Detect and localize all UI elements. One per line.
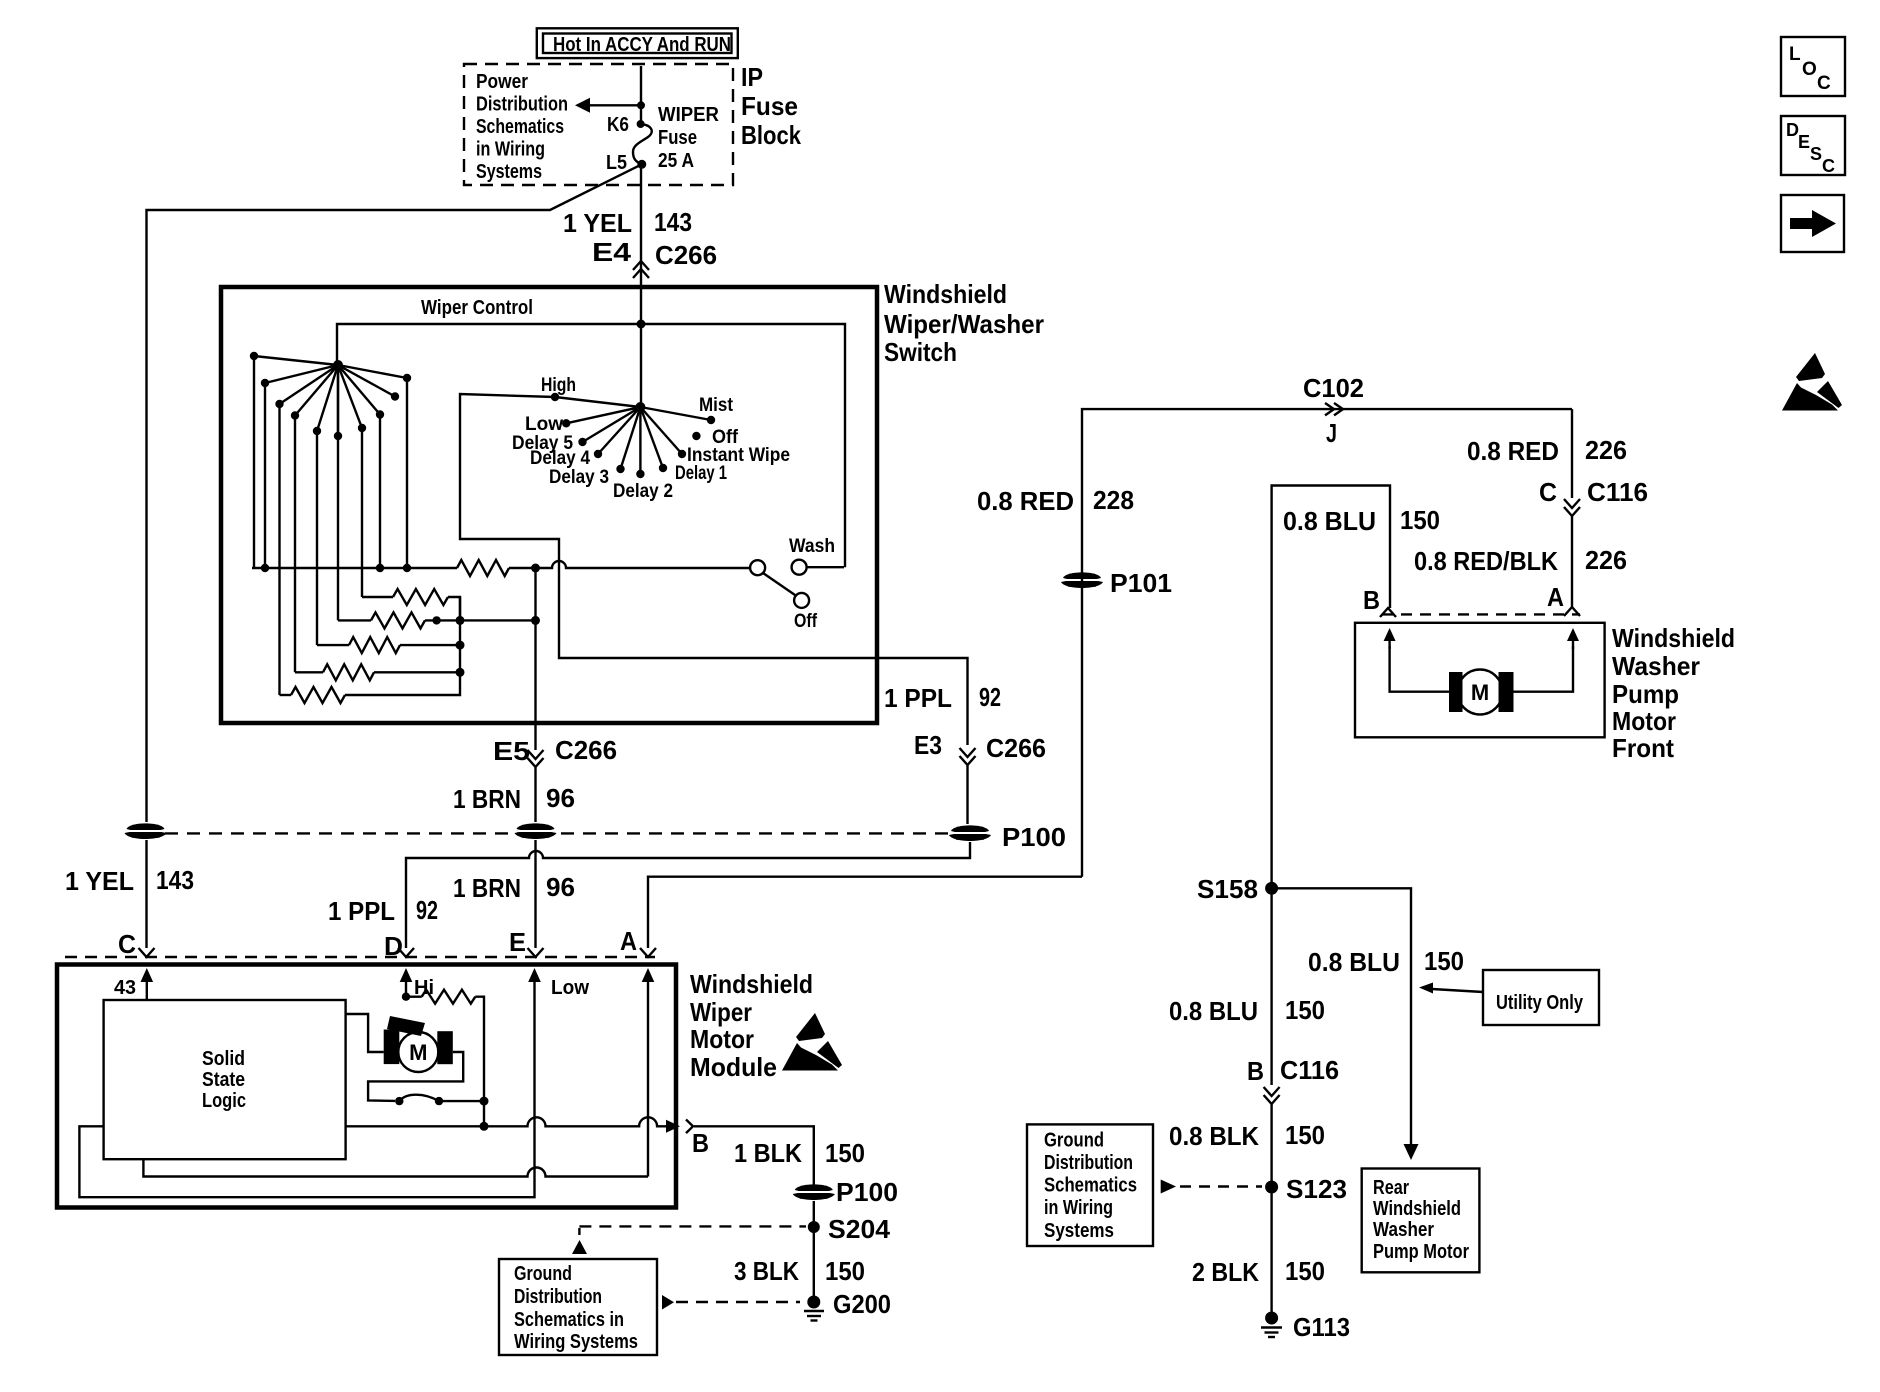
wire: 0.8 BLU 150 down from S158 [1270, 888, 1272, 1085]
svg-text:Motor: Motor [690, 1024, 754, 1054]
svg-text:Rear: Rear [1373, 1177, 1409, 1199]
svg-text:Logic: Logic [202, 1090, 246, 1112]
svg-text:150: 150 [1400, 505, 1440, 535]
svg-text:143: 143 [156, 865, 194, 895]
svg-text:C: C [1822, 156, 1835, 176]
svg-text:C: C [1817, 73, 1831, 94]
connector C116 pin B [1247, 1055, 1339, 1104]
svg-text:Low: Low [551, 977, 589, 999]
wire: RED 228 to module pin A [648, 877, 1082, 948]
svg-text:Solid: Solid [202, 1048, 245, 1070]
svg-text:Mist: Mist [699, 395, 734, 416]
label: 1 BLK 150 [734, 1138, 865, 1168]
junction S204 [808, 1201, 891, 1296]
motor M (washer pump) [1449, 670, 1514, 715]
svg-text:Wiper: Wiper [690, 997, 752, 1027]
wire: 0.8 BLK 150 [1270, 1103, 1272, 1187]
svg-text:Windshield: Windshield [1612, 623, 1735, 653]
box: Ground Distribution Schematics in Wiring Systems (right) [1027, 1124, 1153, 1246]
switch: left wafer rays [254, 356, 407, 436]
svg-text:Pump Motor: Pump Motor [1373, 1241, 1469, 1263]
svg-text:Windshield: Windshield [884, 279, 1007, 309]
icon: LOC [1781, 37, 1845, 96]
svg-text:Motor: Motor [1612, 706, 1676, 736]
svg-text:Washer: Washer [1612, 651, 1700, 681]
wire: E5 drop [534, 568, 536, 723]
svg-text:96: 96 [546, 783, 575, 813]
svg-text:E3: E3 [914, 730, 942, 760]
svg-text:B: B [1363, 585, 1380, 615]
svg-text:D: D [384, 931, 403, 961]
svg-text:C: C [1539, 477, 1557, 507]
wire: bus to wash contact (hop over High) [509, 561, 750, 568]
svg-text:25 A: 25 A [658, 150, 694, 172]
resistor R2 row [362, 589, 460, 620]
splice P100 (1 BRN) [515, 823, 557, 839]
wire: 0.8 RED 226 [1571, 409, 1573, 498]
wire: armature return [368, 1052, 463, 1101]
box: Rear Windshield Washer Pump Motor [1362, 1169, 1480, 1273]
label: IP Fuse Block [741, 62, 801, 150]
switch: left wafer hub [333, 360, 343, 370]
svg-text:150: 150 [825, 1256, 865, 1286]
switch: left wafer contacts [250, 352, 411, 440]
switch: rotary contacts + Off [551, 393, 715, 478]
label: 2 BLK 150 [1192, 1256, 1325, 1287]
switch: rotary hub [635, 402, 645, 412]
svg-text:E: E [509, 927, 526, 957]
svg-text:C266: C266 [986, 733, 1046, 763]
svg-text:P101: P101 [1110, 568, 1172, 598]
svg-text:C102: C102 [1303, 373, 1364, 403]
svg-text:226: 226 [1585, 435, 1627, 465]
svg-text:Wiring Systems: Wiring Systems [514, 1331, 638, 1353]
box: Utility Only [1419, 970, 1599, 1025]
wire: pin A vertical [647, 976, 649, 1177]
svg-text:0.8 RED/BLK: 0.8 RED/BLK [1414, 546, 1558, 576]
pin A (pump) [1547, 582, 1580, 616]
svg-text:Low: Low [525, 414, 563, 435]
ground G200 [804, 1289, 891, 1321]
svg-text:E5: E5 [493, 736, 530, 766]
label: 0.8 RED/BLK 226 [1414, 545, 1627, 576]
svg-text:Systems: Systems [1044, 1220, 1114, 1242]
svg-text:Hot In ACCY And RUN: Hot In ACCY And RUN [553, 34, 731, 56]
svg-text:Switch: Switch [884, 337, 957, 367]
label: 1 PPL 92 (lower) [328, 895, 438, 926]
splice P101 [1061, 568, 1172, 598]
switch: park switch [395, 1095, 488, 1106]
svg-text:C116: C116 [1587, 477, 1648, 507]
svg-text:Ground: Ground [1044, 1130, 1104, 1152]
svg-text:150: 150 [1285, 995, 1325, 1025]
connector: pump pins dashed [1382, 613, 1580, 615]
svg-text:0.8 BLU: 0.8 BLU [1283, 506, 1376, 536]
wire: 1 YEL 143 to pin C [139, 840, 155, 957]
svg-text:A: A [1547, 582, 1564, 612]
svg-text:High: High [541, 375, 576, 396]
junction S158 [1197, 874, 1278, 904]
svg-text:226: 226 [1585, 545, 1627, 575]
svg-text:1 PPL: 1 PPL [884, 683, 952, 713]
svg-text:0.8 RED: 0.8 RED [1467, 436, 1559, 466]
svg-text:Systems: Systems [476, 161, 542, 183]
wire: pin A input arrow [642, 968, 655, 982]
wire: 1 PPL 92 from P100 left to pin D (hop over BRN) [406, 842, 970, 948]
svg-text:228: 228 [1093, 485, 1134, 515]
svg-text:Distribution: Distribution [476, 94, 568, 116]
svg-text:1 YEL: 1 YEL [563, 208, 632, 238]
svg-text:1 BRN: 1 BRN [453, 873, 521, 903]
wire: arrow to Power Distribution Schematics [575, 98, 645, 113]
junction S123 [1265, 1174, 1347, 1204]
component: Solid State Logic [104, 1000, 346, 1159]
resistor R6 row [280, 597, 461, 703]
component: Windshield Washer Pump Motor Front [1355, 623, 1605, 738]
svg-text:S204: S204 [828, 1214, 891, 1244]
label: Power Distribution Schematics in Wiring Systems [476, 71, 568, 183]
svg-text:B: B [1247, 1056, 1264, 1086]
fuse: WIPER Fuse 25 A (K6/L5) [633, 120, 652, 169]
wire: SSL to motor [346, 1014, 384, 1052]
wire: E4 drop to switch [640, 164, 642, 287]
svg-text:Wash: Wash [789, 536, 835, 557]
connector E5 C266 [493, 723, 617, 822]
svg-text:Fuse: Fuse [658, 127, 697, 149]
svg-text:Washer: Washer [1373, 1219, 1434, 1241]
svg-text:IP: IP [741, 62, 763, 92]
svg-text:C266: C266 [555, 735, 617, 765]
svg-text:Wiper Control: Wiper Control [421, 297, 533, 319]
svg-text:Delay 4: Delay 4 [530, 448, 590, 469]
svg-text:Power: Power [476, 71, 528, 93]
svg-text:150: 150 [1285, 1256, 1325, 1286]
resistor R5 row [295, 664, 465, 680]
wire: 1 BLK 150 from pin B [692, 1126, 814, 1186]
svg-text:Distribution: Distribution [1044, 1152, 1133, 1174]
svg-text:G113: G113 [1293, 1312, 1350, 1342]
wire: 0.8 BLU 150 branch to rear pump [1272, 888, 1411, 1145]
label: 1 YEL 143 (fuse) [563, 207, 692, 238]
svg-text:J: J [1326, 418, 1337, 448]
svg-text:43: 43 [114, 977, 136, 999]
svg-text:Module: Module [690, 1052, 777, 1082]
svg-text:Ground: Ground [514, 1263, 572, 1285]
wire: pin D Hi arrow [400, 968, 434, 1001]
svg-text:92: 92 [416, 895, 438, 925]
svg-text:O: O [1802, 59, 1817, 80]
wire: delay resistor bus [252, 567, 457, 569]
splice P100 (1 YEL) [125, 823, 167, 839]
svg-text:C: C [118, 929, 136, 959]
connector: module pins dashed [65, 956, 655, 958]
svg-text:1 BLK: 1 BLK [734, 1138, 802, 1168]
svg-text:Instant Wipe: Instant Wipe [687, 445, 790, 466]
svg-text:S158: S158 [1197, 874, 1258, 904]
svg-text:0.8 BLU: 0.8 BLU [1308, 947, 1400, 977]
wire: 0.8 BLU 150 S158 to pump B [1272, 486, 1390, 889]
svg-text:Pump: Pump [1612, 679, 1679, 709]
svg-text:Schematics in: Schematics in [514, 1309, 624, 1331]
svg-text:3 BLK: 3 BLK [734, 1256, 799, 1286]
symbol: ESD (top right) [1782, 353, 1842, 411]
label: 0.8 BLU 150 (branch) [1308, 946, 1464, 977]
wire: B exit arrow [666, 1120, 693, 1134]
svg-text:E: E [1798, 132, 1810, 152]
label: 1 YEL 143 (lower) [65, 865, 194, 896]
wire: pump A lead [1514, 628, 1580, 692]
svg-text:Windshield: Windshield [1373, 1198, 1461, 1220]
svg-text:Windshield: Windshield [690, 969, 813, 999]
wire: 0.8 RED 228 riser to C102 [1082, 409, 1572, 877]
svg-text:M: M [1471, 680, 1489, 705]
svg-text:K6: K6 [607, 114, 629, 136]
icon: DESC [1781, 116, 1845, 176]
splice P100 (1 BLK) [793, 1177, 898, 1207]
label: 1 BRN 96 (lower) [453, 872, 575, 903]
svg-text:150: 150 [825, 1138, 865, 1168]
svg-text:Schematics: Schematics [1044, 1174, 1137, 1196]
switch: rotary rays [555, 397, 711, 474]
wire: wash to rail [807, 566, 844, 568]
svg-text:2 BLK: 2 BLK [1192, 1257, 1259, 1287]
label: Windshield Wiper/Washer Switch [884, 279, 1044, 367]
wire: pin C 43 arrow [114, 968, 153, 1000]
svg-text:G200: G200 [833, 1289, 891, 1319]
wire: pin E vertical + SSL return [79, 976, 534, 1197]
svg-text:C116: C116 [1280, 1055, 1339, 1085]
svg-text:C266: C266 [655, 240, 717, 270]
svg-text:Fuse: Fuse [741, 91, 798, 121]
svg-text:0.8 BLU: 0.8 BLU [1169, 996, 1258, 1026]
splice P100 (1 PPL) [949, 822, 1066, 852]
svg-text:in Wiring: in Wiring [1044, 1197, 1113, 1219]
resistor R4 row [317, 637, 465, 653]
resistor R1 [457, 560, 509, 576]
label: 0.8 RED 228 [977, 485, 1134, 516]
svg-text:E4: E4 [592, 237, 632, 267]
connector C116 pin C [1539, 477, 1648, 516]
wire: wiper control rail [337, 320, 845, 568]
connector P100 dashed [165, 832, 952, 834]
svg-text:P100: P100 [1002, 822, 1066, 852]
switch: Wash contacts [750, 560, 809, 608]
connector C102 J [1303, 373, 1364, 448]
label: WIPER Fuse 25 A [658, 104, 720, 172]
svg-text:State: State [202, 1069, 245, 1091]
symbol: ESD (module) [782, 1013, 842, 1071]
wire: dashed ref from S204 [572, 1226, 806, 1254]
svg-text:in Wiring: in Wiring [476, 139, 545, 161]
svg-text:150: 150 [1285, 1120, 1325, 1150]
label: 0.8 BLK 150 [1169, 1120, 1325, 1151]
svg-text:Distribution: Distribution [514, 1286, 602, 1308]
icon: next arrow [1781, 195, 1844, 252]
motor M (wiper) [384, 1016, 453, 1072]
svg-text:Block: Block [741, 120, 801, 150]
wire: 1 PPL 92 down to P100 [884, 682, 1046, 824]
svg-text:A: A [620, 926, 637, 956]
wire: dashed ref to G200 [662, 1295, 800, 1310]
svg-text:M: M [409, 1040, 427, 1065]
pin B (pump) [1363, 585, 1396, 617]
node: Hot In ACCY And RUN feed [537, 28, 738, 58]
svg-text:L5: L5 [606, 152, 627, 174]
svg-text:Delay 2: Delay 2 [613, 481, 673, 502]
svg-text:0.8 BLK: 0.8 BLK [1169, 1121, 1259, 1151]
connector E4 C266 [592, 237, 717, 278]
label: Windshield Washer Pump Motor Front [1612, 623, 1735, 763]
wire: E4 feed to rotary hub [640, 287, 642, 407]
wire: low rail [143, 1159, 648, 1176]
ground G113 [1261, 1312, 1350, 1343]
wire: left wafer drops [254, 356, 407, 695]
svg-text:143: 143 [654, 207, 692, 237]
resistor R3 row [338, 612, 540, 628]
wire: 2 BLK 150 [1270, 1187, 1272, 1312]
svg-text:L: L [1789, 44, 1801, 65]
wire: dashed ref to S123 [1161, 1180, 1262, 1194]
svg-text:Delay 1: Delay 1 [675, 463, 727, 484]
wire: feed into fuse block [640, 66, 642, 124]
component: Windshield Wiper Motor Module [57, 965, 676, 1208]
label: 1 BRN 96 (upper) [453, 783, 575, 814]
svg-text:Front: Front [1612, 733, 1674, 763]
svg-text:S123: S123 [1286, 1174, 1347, 1204]
wire: pin E Low input [528, 968, 589, 999]
svg-text:WIPER: WIPER [658, 104, 720, 126]
label: 0.8 BLU 150 [1169, 995, 1325, 1026]
svg-text:B: B [692, 1128, 709, 1158]
wire: 1 BRN 96 to pin E [528, 840, 544, 957]
svg-text:Delay 3: Delay 3 [549, 467, 609, 488]
svg-text:S: S [1810, 144, 1822, 164]
svg-text:Schematics: Schematics [476, 116, 564, 138]
IP Fuse Block dashed box [464, 64, 733, 185]
wire: 1 YEL 143 diagonal run to left [147, 164, 642, 822]
svg-text:Off: Off [794, 611, 818, 632]
box: Ground Distribution Schematics in Wiring Systems (left) [499, 1259, 657, 1355]
svg-text:P100: P100 [836, 1177, 898, 1207]
resistor: Hi resistor [422, 990, 476, 1004]
wire: High contact to 1 PPL output [460, 394, 968, 745]
svg-text:96: 96 [546, 872, 575, 902]
label: 3 BLK 150 [734, 1256, 865, 1286]
svg-text:92: 92 [979, 682, 1001, 712]
wire: 0.8 RED/BLK 226 to pump A [1571, 515, 1573, 607]
svg-text:1 BRN: 1 BRN [453, 784, 521, 814]
svg-text:0.8 RED: 0.8 RED [977, 486, 1074, 516]
svg-text:1 PPL: 1 PPL [328, 896, 395, 926]
label: 0.8 RED 226 [1467, 435, 1627, 466]
svg-text:150: 150 [1424, 946, 1464, 976]
wire: output rail to pin B (hops) [346, 1117, 666, 1126]
svg-text:Utility Only: Utility Only [1496, 992, 1584, 1014]
component: Windshield Wiper/Washer Switch [221, 287, 877, 723]
junctions on bus [261, 564, 540, 573]
wire: pump B lead [1384, 628, 1449, 692]
label: 0.8 BLU 150 (pump) [1283, 505, 1440, 536]
label: Windshield Wiper Motor Module [690, 969, 813, 1082]
svg-text:1 YEL: 1 YEL [65, 866, 134, 896]
svg-text:Wiper/Washer: Wiper/Washer [884, 309, 1044, 339]
